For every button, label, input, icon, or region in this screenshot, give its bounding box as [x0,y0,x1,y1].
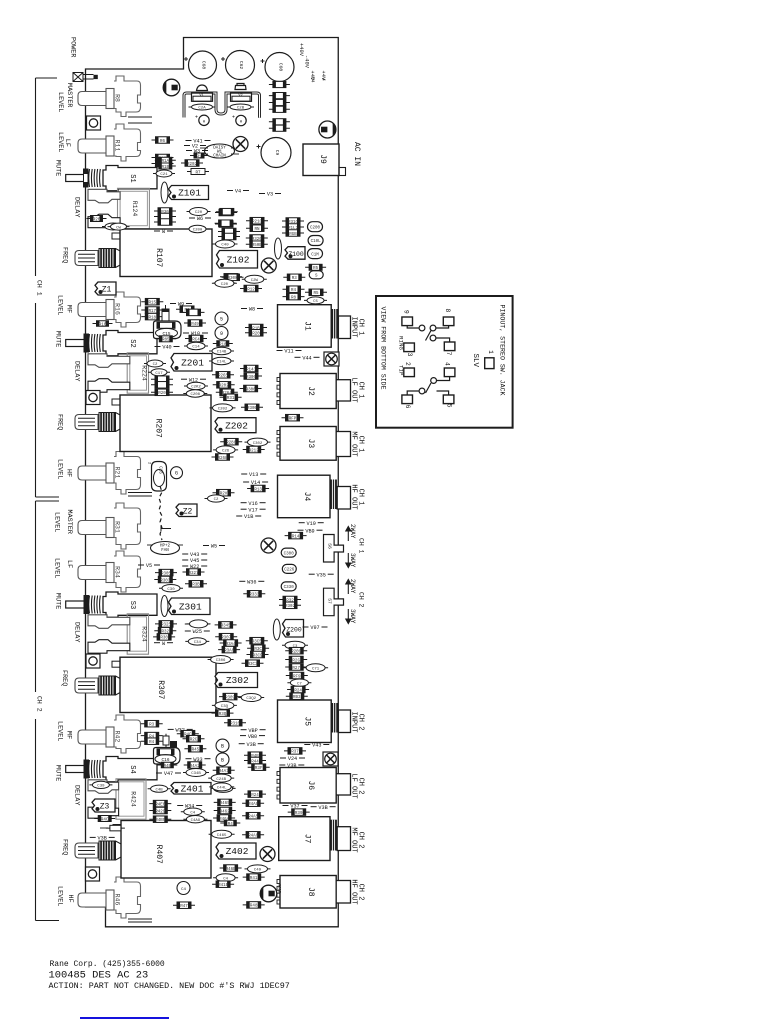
capacitor C30b [159,585,183,592]
svg-text:C34: C34 [194,641,202,645]
crystal Y100 [275,238,282,259]
resistor R4A9 [242,800,264,807]
svg-text:R3B: R3B [192,584,200,588]
svg-text:MF OUT: MF OUT [349,827,357,852]
svg-text:R310: R310 [230,723,241,727]
svg-text:VIEW FROM BOTTOM SIDE: VIEW FROM BOTTOM SIDE [380,307,387,390]
svg-text:C226: C226 [284,569,295,573]
svg-text:5: 5 [445,404,452,408]
svg-text:V97: V97 [310,625,319,631]
resistor R41B [212,881,234,888]
label LF LEVEL [56,132,71,152]
resistor R208 [151,389,173,396]
svg-text:R18: R18 [149,316,157,320]
resistor R4B [244,752,266,759]
capacitor C3Q [212,701,237,709]
svg-text:C465: C465 [217,834,227,838]
capacitor CXW [242,275,267,283]
IC Z401 [171,783,211,795]
jack J1 [278,305,351,348]
svg-text:C4: C4 [181,888,186,892]
resistor R4A6 [242,832,264,839]
resistor R12 [152,154,174,161]
svg-text:R1: R1 [196,155,202,159]
screw hole SC1 [324,352,339,366]
svg-text:R2C: R2C [190,739,198,743]
label MASTER LEVEL 2 [53,510,74,534]
svg-text:MF: MF [65,731,73,739]
resistor R46B [220,865,242,872]
switch S1 [66,166,157,191]
svg-text:R107: R107 [154,248,163,267]
resistor R24 [287,686,309,693]
svg-text:R302: R302 [285,605,296,609]
capacitor C62 [221,51,255,80]
capacitor C26 [213,446,238,454]
diode D6 [269,125,290,131]
svg-text:R288: R288 [226,442,237,446]
svg-text:ACTION: PART NOT CHANGED. NEW: ACTION: PART NOT CHANGED. NEW DOC #'S RW… [49,981,290,991]
svg-text:J1: J1 [302,321,311,331]
pinout pin 3 pad RING [398,336,415,357]
svg-text:G: G [175,471,178,477]
pinout switch wiring top [407,325,449,342]
svg-text:MUTE: MUTE [54,331,62,347]
svg-text:R48: R48 [250,905,258,909]
svg-text:R46: R46 [114,894,121,906]
svg-text:R42: R42 [114,731,121,743]
trimpot R124 [88,188,149,228]
label CH 1 INPUT [349,317,364,338]
svg-text:R3A6: R3A6 [224,649,235,653]
resistor R308 [153,634,175,641]
svg-text:J9: J9 [318,154,327,164]
resistor R41x [243,874,265,881]
svg-text:V5: V5 [146,563,152,569]
svg-text:MASTER: MASTER [65,83,73,107]
svg-text:C30: C30 [167,588,175,592]
IC Z202 [215,418,256,433]
capacitor C226 [282,564,296,573]
svg-text:R3C9: R3C9 [252,654,263,658]
svg-text:B4: B4 [310,77,316,83]
capacitor C7 [287,679,311,686]
resistor R18 [141,313,163,320]
svg-text:J7: J7 [302,834,311,844]
svg-text:RN: RN [254,228,260,232]
resistor R4C [94,816,115,823]
svg-text:CH 2: CH 2 [357,714,365,731]
wire V14 [243,480,268,486]
svg-text:R4A6: R4A6 [248,835,259,839]
resistor R107t [190,153,208,159]
resistor R333 [243,591,265,598]
resistor R1As [155,157,176,164]
svg-text:J4: J4 [302,492,311,502]
resistor R306 [240,373,262,380]
svg-text:C302: C302 [253,442,263,446]
svg-text:HF OUT: HF OUT [349,879,357,904]
stadium C200t [308,222,323,232]
label CH 1 LF OUT [349,377,364,402]
potentiometer R11 [78,124,141,161]
svg-text:R3C5: R3C5 [252,641,263,645]
capacitor C2K2 [184,382,208,389]
trimpot R224 [88,353,149,393]
svg-text:CH 2: CH 2 [358,592,365,608]
wire VB9 [298,528,323,534]
svg-text:R21: R21 [114,467,121,479]
IC Z3 [92,799,115,812]
capacitor C49x [245,865,271,873]
svg-text:MF: MF [65,305,73,313]
svg-text:R207: R207 [154,419,163,438]
potentiometer FREQ CH2-HF [75,841,123,860]
svg-text:C40: C40 [221,244,229,248]
svg-text:DELAY: DELAY [73,785,81,805]
resistor R201b [151,382,173,389]
svg-text:C14: C14 [192,346,200,350]
module R207 [112,395,211,452]
svg-text:W8: W8 [249,307,255,313]
svg-text:J3: J3 [306,439,315,449]
resistor R323a [279,596,301,603]
switch S6 2way/3way CH1 [324,535,344,563]
svg-text:C300: C300 [284,552,295,556]
resistor R5 [305,289,327,296]
svg-text:V2: V2 [238,94,242,98]
resistor R4A5 [242,812,264,819]
svg-text:R14: R14 [292,535,300,539]
svg-text:V3B: V3B [98,836,107,842]
resistor R8b [283,293,305,300]
mount hole X3 [260,847,275,862]
svg-text:CH 1: CH 1 [357,489,365,506]
svg-text:R49: R49 [191,323,199,327]
label MASTER LEVEL [56,83,73,112]
resistor R39 [288,809,310,816]
svg-text:Z200: Z200 [286,626,302,633]
switch S3 [66,592,157,617]
svg-text:7: 7 [445,352,452,356]
svg-text:4: 4 [321,78,327,81]
svg-text:S7: S7 [327,598,333,604]
svg-text:C2W: C2W [251,279,259,283]
svg-text:R4: R4 [291,289,297,293]
pinout switch wiring bottom [407,377,449,395]
resistor cluster S1 right 3 [154,219,176,226]
resistor RGB [282,230,304,237]
svg-text:R39: R39 [295,812,303,816]
circled B1 [216,739,229,752]
svg-text:R124: R124 [131,201,138,217]
svg-text:R8: R8 [114,94,121,102]
svg-text:R85: R85 [162,339,170,343]
wire V11 [277,349,302,355]
capacitor C14 [184,342,208,349]
svg-text:CH 2: CH 2 [357,884,365,901]
resistor R325 [155,621,177,628]
wire V3B3 [311,805,336,811]
screw hole SC2 [323,752,338,766]
capacitor C1 plates [128,117,152,123]
resistor Rtop5a [286,672,308,679]
resistor R264b [218,233,240,240]
resistor R4A1 [213,767,235,774]
svg-text:R429: R429 [155,810,166,814]
svg-text:C20: C20 [195,211,203,215]
mounting hole H1 [87,116,101,130]
wire w1 [154,229,173,235]
capacitor C16 vertical [152,462,167,492]
svg-text:2: 2 [404,362,411,366]
svg-text:LEVEL: LEVEL [56,459,64,479]
svg-text:SLV: SLV [471,354,479,368]
resistor R320 [246,235,268,242]
wire W4 [227,189,249,195]
capacitor C330 [281,582,296,591]
svg-text:R3: R3 [292,277,298,281]
diode D5 [269,119,290,125]
svg-text:Z401: Z401 [181,783,204,794]
diode D4 [269,106,290,112]
svg-text:C3Q2: C3Q2 [246,697,256,701]
capacitor C3Q2 [238,694,264,702]
resistor RN [246,225,268,232]
capacitor C340 [185,638,209,645]
svg-text:R47: R47 [180,905,188,909]
svg-text:3WAY: 3WAY [349,553,356,568]
resistor R4Bb [157,762,177,769]
svg-text:VB9: VB9 [305,528,314,534]
svg-text:Z2: Z2 [183,507,193,516]
label CH 2 LF OUT [349,773,364,798]
svg-text:C200: C200 [193,229,203,233]
svg-text:-40V: -40V [304,55,310,69]
vertical res VR [163,734,169,748]
wire VB0 [240,734,265,740]
resistor R264 [216,389,238,396]
resistor R31C [282,218,304,225]
svg-text:R202: R202 [219,385,230,389]
wire W22 [182,564,207,570]
svg-text:R424: R424 [130,791,137,807]
pinout pin 8 pad [443,309,454,326]
svg-text:C5: C5 [313,300,318,304]
svg-text:V43: V43 [312,743,321,749]
svg-text:4: 4 [443,362,450,366]
label MF LEVEL 2 [56,721,73,741]
svg-text:V3B: V3B [287,763,296,769]
transistor Q3 [260,885,277,902]
IC Z1 [95,282,116,295]
resistor cluster S1 right 2 [154,213,176,220]
wire V41 [186,139,211,145]
capacitor C200 [186,225,209,232]
resistor R3B [185,581,207,588]
wire V1B [236,514,261,520]
svg-text:9C1B: 9C1B [277,884,281,894]
resistor R4E0 [149,800,171,807]
capacitor C465 [209,830,235,838]
svg-text:C2A: C2A [198,107,206,111]
capacitor C3 plates [128,919,152,922]
svg-text:Z3: Z3 [100,803,110,812]
resistor R3C3 [242,660,264,667]
svg-text:R30B: R30B [247,407,258,411]
resistor R2V [213,489,235,496]
svg-text:R306: R306 [246,376,257,380]
svg-text:9: 9 [403,310,410,314]
net label DAISY CHAIN [200,144,239,159]
svg-text:Z101: Z101 [178,188,201,199]
jack J4 [278,475,351,518]
svg-text:DELAY: DELAY [73,622,81,642]
resistor R49 [184,320,206,327]
capacitor C40 [213,240,238,248]
switch S7 2way/3way CH2 [324,588,344,616]
wire V13 [241,472,266,478]
resistor R329 [154,627,176,634]
svg-text:R309: R309 [225,696,236,700]
capacitor C44L [209,783,234,791]
svg-text:J5: J5 [302,716,311,726]
resistor R288 [220,438,242,445]
transistor Q1 [163,79,180,96]
svg-text:R13: R13 [254,488,262,492]
svg-text:CH 2: CH 2 [36,696,43,712]
potentiometer R31 [78,503,141,549]
svg-text:V11: V11 [284,349,293,355]
svg-text:C20: C20 [221,283,229,287]
svg-text:HP+2: HP+2 [160,545,171,549]
svg-text:R224: R224 [141,365,148,381]
resistor R210 [220,274,242,281]
resistor R7 [187,169,209,176]
svg-text:C2B: C2B [237,107,245,111]
resistor R3A4 [220,640,242,647]
capacitor C202 [210,404,236,412]
capacitor C302 [245,438,271,446]
capacitor C2 plates [128,493,152,497]
resistor R4x [220,820,240,827]
pinout pin 6 pad [402,395,413,409]
resistor R3F [248,764,270,771]
pinout diagram box [376,296,513,428]
resistor R17 [141,307,163,314]
crystal Y301 [161,596,168,617]
svg-text:R4: R4 [228,823,234,827]
wire VBP [241,728,266,734]
svg-text:INPUT: INPUT [349,712,357,733]
capacitor C16b [154,748,181,765]
resistor R302b [279,602,301,609]
svg-text:V17: V17 [248,507,257,513]
resistor R303 [154,576,176,583]
diode D2 [269,93,290,99]
resistor R327 [183,569,205,576]
resistor R3C9 [247,651,269,658]
wire V19 [299,521,324,527]
svg-text:R24: R24 [251,794,259,798]
capacitor C17 [148,369,170,376]
IC Z402 [216,843,256,859]
svg-text:MUTE: MUTE [54,160,62,176]
resistor R268 [212,454,234,461]
potentiometer R46 [78,877,141,918]
resistor R1Bs [155,163,176,170]
svg-text:C200: C200 [310,226,321,230]
blue underline [80,1017,169,1019]
resistor R310 [224,719,246,726]
svg-text:R4B9: R4B9 [155,819,166,823]
svg-text:C71: C71 [312,668,320,672]
svg-text:6: 6 [404,405,411,409]
svg-text:R303: R303 [160,579,171,583]
resistor R2A2 [215,220,237,227]
resistor R13 [247,485,269,492]
capacitor C4B [148,785,171,792]
resistor R4s1 [141,732,163,739]
IC Z302 [215,673,258,688]
svg-text:R6: R6 [160,140,166,144]
svg-text:HF OUT: HF OUT [349,484,357,509]
switch S2 [66,331,157,356]
power switch S5 [73,73,98,82]
svg-text:C49: C49 [254,869,262,873]
svg-text:LF: LF [65,560,73,568]
resistor R26 [215,221,237,228]
regulator VR2 [231,84,252,102]
svg-text:FREQ: FREQ [61,247,69,263]
svg-text:R5: R5 [313,292,319,296]
svg-text:2WAY: 2WAY [349,524,356,539]
wire W5b [203,544,225,550]
svg-text:C62: C62 [238,61,244,70]
mount hole X2 [261,538,276,553]
svg-text:S3: S3 [128,601,136,609]
resistor R462 [214,807,236,814]
resistor RB3 [286,693,308,700]
svg-text:FAN: FAN [161,549,169,553]
svg-text:W36: W36 [247,580,256,586]
svg-text:R324: R324 [141,626,148,642]
svg-text:C4B: C4B [155,788,163,792]
resistor R3C6 [247,645,269,652]
svg-text:R37: R37 [291,751,299,755]
resistor R27 [285,664,307,671]
wire V97 [303,625,328,631]
svg-text:R300: R300 [246,388,257,392]
svg-text:100485 DES AC 23: 100485 DES AC 23 [49,970,149,982]
svg-text:3: 3 [406,353,413,357]
svg-text:LEVEL: LEVEL [56,295,64,315]
wire W9 [170,302,192,308]
svg-text:R41B: R41B [218,884,229,888]
svg-text:Z102: Z102 [227,254,250,265]
svg-text:R20: R20 [158,392,166,396]
svg-text:V16: V16 [248,501,257,507]
resistor R6 [152,137,174,144]
crystal Y200 [273,619,280,640]
jack J9 AC [303,144,346,176]
svg-text:Z1: Z1 [102,286,112,295]
svg-text:S2: S2 [128,339,136,347]
resistor R44 [244,757,266,764]
svg-text:CH 1: CH 1 [357,319,365,336]
label CH 2 MF OUT [349,827,364,852]
IC Z301 [169,598,211,615]
